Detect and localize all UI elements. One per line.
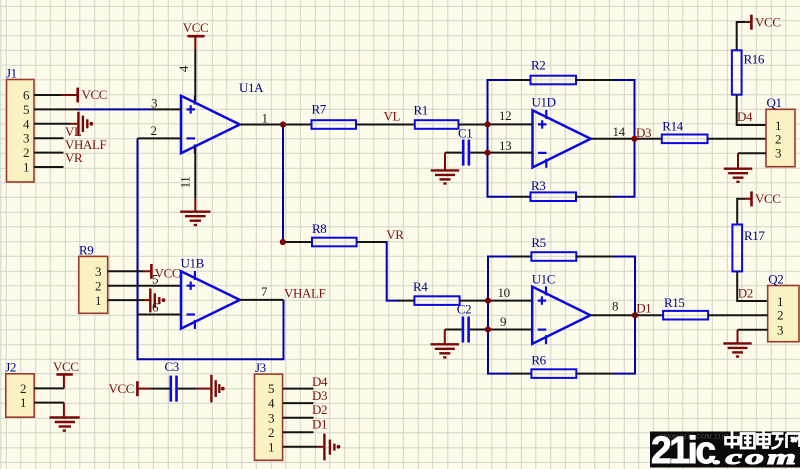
resistor R15	[635, 295, 768, 319]
svg-text:R17: R17	[744, 228, 765, 243]
svg-text:10: 10	[498, 285, 510, 300]
junction dot U1C pin 10	[485, 298, 491, 304]
svg-text:R2: R2	[531, 58, 545, 73]
svg-text:1: 1	[268, 439, 274, 454]
svg-text:U1B: U1B	[181, 256, 205, 271]
svg-text:11: 11	[178, 177, 193, 189]
svg-text:VR: VR	[65, 150, 83, 165]
wire R7 to R1	[356, 124, 415, 126]
connector J2	[5, 360, 34, 417]
resistor R6	[531, 352, 576, 378]
svg-text:2: 2	[20, 381, 26, 396]
J1 pin 1 stub	[34, 166, 64, 168]
svg-text:1: 1	[95, 293, 101, 308]
svg-text:D2: D2	[738, 286, 753, 301]
svg-text:VL: VL	[384, 108, 401, 123]
svg-text:1: 1	[23, 160, 29, 175]
U1C pin 10	[488, 285, 532, 300]
U1A pin 2	[138, 123, 182, 139]
svg-text:D4: D4	[737, 109, 753, 124]
wire R6 right pin	[576, 373, 613, 375]
connector Q1	[766, 95, 795, 167]
J3 pin 2 stub	[283, 431, 314, 433]
U1D pin 14 (output)	[591, 124, 635, 139]
CJK: 中国电子网 simplified strokes	[726, 432, 800, 449]
wire R3 row right	[613, 196, 636, 198]
junction dot R8 left	[280, 239, 286, 245]
wire U1A pin2 down to U1B loop	[137, 138, 139, 359]
svg-text:D1: D1	[636, 300, 651, 315]
svg-text:3: 3	[268, 410, 274, 425]
watermark 21ic.com logo	[650, 429, 800, 469]
U1A pin 3	[151, 95, 181, 110]
wire R16 to Q1 pin 1	[737, 95, 766, 125]
svg-text:C1: C1	[458, 125, 472, 140]
svg-text:R8: R8	[312, 221, 326, 236]
svg-text:R9: R9	[79, 243, 93, 258]
power VCC at R16	[737, 15, 781, 30]
svg-text:3: 3	[95, 264, 101, 279]
wire U1C feedback left vertical	[487, 257, 489, 374]
J1 pin 5 stub	[34, 108, 77, 110]
svg-text:VCC: VCC	[155, 265, 181, 280]
ground at C1	[431, 153, 459, 184]
svg-text:U1D: U1D	[532, 95, 556, 110]
svg-text:.com: .com	[713, 446, 799, 469]
J1 pin numbers	[23, 88, 30, 175]
svg-text:1: 1	[20, 395, 26, 410]
svg-text:6: 6	[23, 88, 30, 103]
svg-text:J3: J3	[255, 360, 266, 375]
connector Q2	[768, 272, 799, 342]
svg-text:2: 2	[777, 308, 783, 323]
svg-text:R7: R7	[312, 101, 327, 116]
svg-text:R4: R4	[413, 279, 428, 294]
svg-text:C3: C3	[165, 359, 179, 374]
J3 pin 1 stub	[283, 446, 317, 448]
svg-text:D4: D4	[312, 374, 328, 389]
ground at U1A pin 11	[180, 199, 210, 225]
op-amp U1A	[181, 80, 264, 153]
capacitor C2	[445, 301, 488, 342]
svg-text:R6: R6	[531, 352, 546, 367]
svg-text:VCC: VCC	[755, 15, 781, 30]
wire R3 row left	[487, 196, 510, 198]
svg-text:R3: R3	[531, 178, 545, 193]
wire R6 row right	[613, 373, 636, 375]
ground (sideways) at R9 pin 1	[144, 288, 165, 312]
wire R6 row left	[487, 373, 509, 375]
wire R2 row right	[613, 79, 636, 81]
wire R5 row right	[613, 256, 636, 258]
svg-text:D1: D1	[312, 416, 327, 431]
op-amp U1D	[532, 95, 591, 168]
wire R5 row left	[487, 256, 509, 258]
J1 pin 2 stub	[34, 152, 64, 154]
junction dot U1C output D1	[632, 312, 638, 318]
J3 pin 5 stub	[283, 388, 314, 390]
U1C pin 8 (output)	[590, 298, 635, 315]
resistor R14	[635, 119, 767, 143]
junction at U1D pin 12	[485, 121, 491, 127]
U1C pin 9	[488, 314, 532, 329]
power VCC at R17	[737, 191, 780, 206]
resistor R5	[531, 235, 576, 261]
svg-text:3: 3	[777, 322, 783, 337]
resistor R16 (vertical)	[732, 50, 765, 94]
R9 pin 2 stub (to U1B pin 5)	[108, 285, 181, 287]
svg-text:2: 2	[268, 425, 274, 440]
resistor R2	[531, 58, 577, 85]
svg-text:8: 8	[612, 298, 618, 313]
wire R5 left pin	[509, 256, 531, 258]
svg-text:14: 14	[613, 124, 626, 139]
svg-text:1: 1	[262, 110, 268, 125]
junction at U1D pin 13	[485, 150, 491, 156]
U1D pin 13	[488, 138, 533, 153]
svg-text:D3: D3	[636, 125, 651, 140]
resistor R7	[283, 101, 356, 129]
svg-text:3: 3	[23, 131, 29, 146]
svg-text:D2: D2	[312, 402, 327, 417]
svg-text:VCC: VCC	[109, 381, 135, 396]
wire junction down to R8 row	[282, 125, 284, 243]
power VCC at J2 pin 2	[53, 359, 79, 389]
svg-text:J2: J2	[5, 360, 16, 375]
svg-text:2: 2	[775, 132, 781, 147]
junction at U1D output	[632, 136, 638, 142]
wire R2 row left	[487, 79, 510, 81]
junction at U1C pin 10	[485, 298, 491, 304]
U1B pin 6	[138, 299, 182, 314]
capacitor C3	[150, 359, 196, 401]
svg-text:5: 5	[268, 381, 274, 396]
J2 pin 2 stub	[34, 387, 64, 389]
svg-text:6: 6	[152, 299, 159, 314]
svg-text:1: 1	[775, 118, 781, 133]
wire VR corner down to R4 row	[387, 241, 400, 301]
svg-text:21ic: 21ic	[651, 429, 715, 469]
junction at U1C output (D1)	[632, 312, 638, 318]
wire R6 left pin	[509, 373, 531, 375]
svg-text:3: 3	[151, 95, 157, 110]
ground at C2	[431, 330, 459, 358]
wire J1.5 to U1A pin3	[77, 108, 152, 110]
wire VCC to R16	[736, 21, 738, 50]
U1B pin 7 (output)	[240, 284, 284, 300]
R9 pin 1 stub	[108, 299, 144, 301]
svg-text:7: 7	[261, 284, 268, 299]
svg-text:VCC: VCC	[183, 20, 209, 35]
U1A pin 11 (to GND)	[178, 147, 196, 199]
wire R5 right pin	[576, 256, 613, 258]
wire U1D feedback right vertical	[634, 80, 636, 197]
Q2 pin 3 stub	[738, 329, 768, 331]
junction at U1A output	[280, 122, 286, 128]
svg-text:12: 12	[499, 108, 511, 123]
svg-text:D3: D3	[312, 388, 327, 403]
svg-text:4: 4	[176, 65, 191, 72]
J2 pin 1 stub	[34, 402, 64, 404]
junction dot U1A output	[280, 122, 286, 128]
J3 pin 3 stub	[283, 417, 314, 419]
ground at J2 pin 1	[50, 403, 80, 431]
svg-text:R1: R1	[414, 102, 428, 117]
power VCC at J1 pin 6	[62, 87, 107, 103]
connector R9	[79, 243, 108, 314]
resistor R3	[531, 178, 577, 201]
ground (sideways) at J1 pin 4	[70, 112, 93, 136]
svg-text:Q1: Q1	[767, 95, 782, 110]
wire R3 left pin	[509, 196, 531, 198]
Q1 pin 3 stub	[738, 152, 766, 154]
svg-text:R15: R15	[664, 295, 684, 310]
svg-text:1: 1	[777, 294, 783, 309]
svg-text:J1: J1	[6, 66, 17, 81]
svg-text:Q2: Q2	[768, 272, 783, 287]
svg-text:VR: VR	[386, 227, 404, 242]
junction at U1C pin 9	[485, 327, 491, 333]
power VCC at U1A pin 4	[183, 20, 209, 49]
wire U1C feedback right vertical	[634, 257, 636, 374]
capacitor C1	[445, 125, 488, 165]
svg-text:C2: C2	[457, 301, 471, 316]
svg-text:2: 2	[23, 145, 29, 160]
svg-text:R16: R16	[744, 51, 765, 66]
svg-text:R14: R14	[662, 119, 683, 134]
power VCC at C3	[109, 381, 151, 396]
svg-text:13: 13	[499, 138, 511, 153]
svg-text:4: 4	[268, 396, 275, 411]
connector J3	[255, 360, 283, 460]
svg-text:VHALF: VHALF	[284, 286, 326, 301]
svg-text:2: 2	[95, 278, 101, 293]
ground at Q2 pin 3	[723, 330, 751, 357]
ground (sideways) at J3 pin 1	[317, 434, 340, 461]
op-amp U1C	[532, 271, 591, 344]
J3 pin 4 stub	[283, 402, 314, 404]
ground at Q1 pin 3	[724, 153, 752, 182]
junction dot U1D pin 13	[485, 150, 491, 156]
U1A pin 1 (output)	[240, 110, 283, 125]
svg-text:VCC: VCC	[53, 359, 79, 374]
resistor R8	[280, 221, 387, 246]
wire U1D feedback left vertical	[487, 80, 489, 197]
power VCC at R9 pin 3	[144, 264, 180, 280]
resistor R1	[414, 102, 488, 129]
wire R3 right pin	[576, 196, 613, 198]
resistor R4	[398, 279, 488, 305]
junction dot U1D output D3	[632, 136, 638, 142]
svg-text:U1A: U1A	[239, 80, 264, 95]
connector J1	[6, 66, 34, 183]
ground (sideways) at C3	[197, 375, 225, 403]
svg-text:VCC: VCC	[82, 87, 108, 102]
wire U1B loop bottom	[137, 358, 285, 360]
svg-text:5: 5	[23, 102, 29, 117]
svg-text:9: 9	[500, 314, 506, 329]
J1 pin 4 stub	[34, 123, 70, 125]
svg-text:4: 4	[23, 116, 30, 131]
resistor R17 (vertical)	[732, 225, 765, 272]
junction dot U1C pin 9	[485, 327, 491, 333]
op-amp U1B	[181, 256, 240, 329]
U1A pin 4 (to VCC)	[176, 50, 195, 101]
R9 pin 3 stub	[108, 270, 144, 272]
svg-text:R5: R5	[531, 235, 545, 250]
svg-text:2: 2	[151, 123, 157, 138]
svg-text:5: 5	[152, 272, 158, 287]
svg-text:3: 3	[775, 146, 781, 161]
junction dot U1D pin 12	[485, 121, 491, 127]
wire VCC to R17	[736, 198, 738, 225]
wire U1B output down	[283, 300, 285, 359]
J1 pin 3 stub	[34, 137, 64, 139]
svg-text:VCC: VCC	[755, 191, 781, 206]
svg-text:U1C: U1C	[532, 271, 555, 286]
wire R17 to Q2 pin 1	[737, 271, 768, 301]
J1 pin 6 stub	[34, 94, 62, 96]
U1D pin 12	[488, 108, 533, 125]
wire R2 right pin	[576, 79, 613, 81]
wire R2 left pin	[509, 79, 531, 81]
